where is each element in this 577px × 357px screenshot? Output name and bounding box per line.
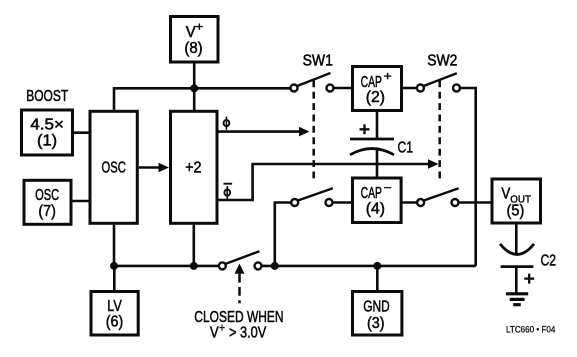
box OSC (7) (24, 180, 71, 224)
wire OSC top to top bus (114, 88, 291, 110)
svg-text:(8): (8) (184, 40, 202, 57)
wire +2 bottom (193, 225, 196, 266)
svg-text:OSC: OSC (102, 159, 126, 176)
svg-text:(1): (1) (37, 133, 57, 150)
junction dot GND (373, 262, 381, 270)
svg-text:+: + (384, 71, 392, 83)
switch SW2 (417, 73, 460, 91)
label phi (224, 117, 230, 130)
junction dot V+ bus (190, 84, 198, 92)
arrowhead phibar (428, 159, 439, 169)
wire VOUT bottom to C2 (515, 224, 518, 255)
svg-text:GND: GND (363, 299, 390, 316)
dashed link SW1 (312, 80, 315, 179)
switch closed-when (bottom bus) (219, 251, 262, 269)
wire CAP+ bottom to C1 (376, 112, 379, 139)
svg-text:+: + (196, 22, 204, 34)
svg-text:SW1: SW1 (303, 53, 333, 70)
box 4.5x (1) (22, 110, 73, 155)
switch lower-right (417, 188, 459, 206)
arrowhead phi (299, 127, 310, 137)
dashed link SW2 (438, 80, 441, 179)
svg-text:(2): (2) (366, 89, 385, 106)
svg-text:(7): (7) (38, 203, 56, 220)
svg-text:+: + (219, 323, 225, 335)
dashed arrow closed-when (238, 274, 241, 303)
svg-text:> 3.0V: > 3.0V (229, 325, 267, 342)
svg-text:4.5×: 4.5× (30, 117, 64, 134)
svg-text:(4): (4) (366, 200, 385, 217)
svg-text:−: − (384, 182, 392, 194)
wire lower-left switch to CAP- (333, 201, 353, 204)
svg-text:V: V (210, 325, 219, 342)
svg-text:V: V (186, 24, 196, 41)
svg-text:BOOST: BOOST (26, 88, 68, 105)
junction dot +2 bottom (190, 262, 198, 270)
wire BOOST stub (73, 131, 91, 134)
wire GND top (376, 266, 379, 292)
box +2 (171, 111, 218, 223)
wire C2 to ground (515, 267, 518, 294)
svg-text:SW2: SW2 (427, 53, 457, 70)
capacitor C1 (350, 124, 394, 155)
ground (506, 294, 528, 305)
wire LV top (113, 266, 116, 292)
svg-text:V: V (501, 186, 510, 203)
svg-text:LV: LV (107, 298, 122, 315)
wire branch up to lower-left switch (275, 203, 291, 266)
svg-text:+2: +2 (185, 160, 202, 177)
wire C1 to CAP- top (376, 149, 379, 178)
label phibar (224, 184, 233, 200)
box V+ (8) (171, 17, 219, 63)
svg-text:LTC660 • F04: LTC660 • F04 (506, 325, 555, 335)
switch SW1 (291, 73, 334, 92)
wire bottom bus right (262, 265, 476, 268)
junction dot branch (271, 262, 279, 270)
svg-text:(3): (3) (367, 315, 385, 332)
wire bottom bus left (114, 265, 219, 268)
wire SW1 to CAP+ (334, 87, 353, 90)
box OSC (90, 111, 137, 223)
box LV (6) (91, 292, 138, 336)
wire OSC bottom (113, 225, 116, 266)
arrowhead OSC to +2 (159, 163, 170, 173)
box GND (3) (353, 292, 402, 336)
wire phibar output (219, 164, 430, 200)
svg-text:(5): (5) (507, 203, 525, 220)
capacitor C2 (500, 244, 534, 284)
svg-text:OSC: OSC (35, 187, 59, 204)
box CAP- (4) (353, 178, 402, 223)
wire lower-right switch to VOUT (458, 201, 492, 204)
wire V+ to divider (193, 64, 196, 112)
wire SW2 to right rail (460, 88, 476, 266)
switch lower-left (291, 188, 333, 206)
svg-text:CLOSED WHEN: CLOSED WHEN (194, 309, 283, 326)
wire CAP+ to SW2 (402, 87, 417, 90)
svg-text:C1: C1 (398, 139, 414, 156)
wire OSC7 stub (71, 200, 90, 203)
wire CAP- to lower-right switch (401, 201, 417, 204)
wire OSC to +2 arrow (139, 166, 160, 169)
svg-text:(6): (6) (106, 314, 124, 331)
box VOUT (5) (492, 179, 541, 223)
svg-text:C2: C2 (541, 252, 557, 269)
junction dot OSC bottom (110, 262, 118, 270)
wire phi output (219, 130, 301, 133)
box CAP+ (2) (353, 67, 402, 111)
